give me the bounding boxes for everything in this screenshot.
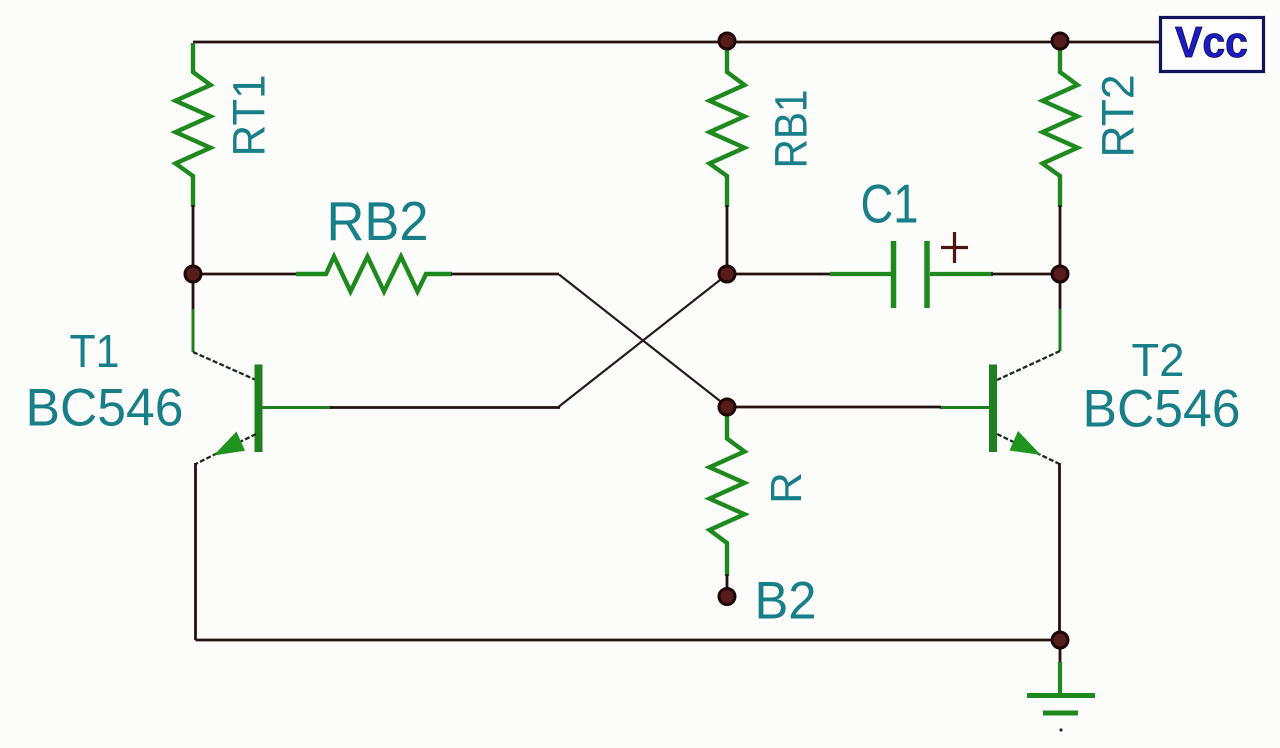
wire R to node B2 — [726, 574, 729, 594]
node B junction dot — [719, 266, 735, 282]
port Vcc box — [1161, 18, 1264, 72]
emitter diagonal T2 — [997, 434, 1060, 464]
svg-text:RT1: RT1 — [224, 75, 275, 157]
emitter arrow T2 — [1010, 431, 1042, 455]
svg-text:RT2: RT2 — [1093, 75, 1144, 158]
svg-text:BC546: BC546 — [26, 379, 184, 438]
wire node A to collector T1 — [192, 274, 195, 310]
wire node D to T2 base — [727, 406, 941, 409]
transistor T1 — [193, 274, 332, 464]
svg-text:T2: T2 — [1132, 334, 1185, 386]
ground third stub — [1059, 728, 1062, 731]
node A junction dot — [185, 266, 201, 282]
emitter arrow T1 — [214, 432, 246, 456]
wire top rail Vcc — [193, 41, 1161, 44]
wire RT2 to node C — [1059, 205, 1062, 274]
wire node C to collector T2 — [1059, 274, 1062, 310]
wire node B to C1 — [727, 273, 831, 276]
base lead T2 — [940, 406, 989, 409]
resistor RB1 — [710, 44, 745, 207]
node B2 junction dot — [719, 589, 735, 605]
collector lead T1 — [192, 309, 195, 352]
node top RB1 junction dot — [719, 33, 735, 49]
wire RT1 to node A — [192, 205, 195, 274]
resistor RT2 — [1043, 44, 1078, 207]
svg-text:Vcc: Vcc — [1175, 18, 1248, 67]
wire diagonal cross B — [559, 275, 727, 407]
svg-text:T1: T1 — [70, 325, 120, 377]
svg-text:RB1: RB1 — [766, 90, 817, 169]
wire RB1 to node B — [726, 205, 729, 274]
wire node E to ground — [1059, 648, 1062, 664]
capacitor C1 — [830, 241, 993, 308]
node D junction dot — [719, 399, 735, 415]
emitter diagonal T1 — [196, 434, 257, 464]
wire diagonal cross A — [559, 275, 727, 407]
wire bottom rail — [196, 639, 1061, 642]
svg-text:C1: C1 — [861, 173, 919, 235]
node E junction dot — [1052, 632, 1068, 648]
base bar T2 — [989, 365, 997, 453]
wire T2 emitter down — [1058, 463, 1061, 640]
wire RB2 to diagonal — [451, 273, 559, 276]
wire node A to RB2 — [193, 273, 297, 276]
node C junction dot — [1052, 266, 1068, 282]
transistor T2 — [940, 274, 1060, 464]
resistor R — [710, 410, 745, 576]
svg-text:BC546: BC546 — [1083, 380, 1241, 439]
resistor RT1 — [176, 43, 211, 207]
base bar T1 — [255, 365, 263, 453]
wire T1 emitter down — [194, 463, 197, 640]
svg-text:R: R — [762, 472, 811, 504]
collector lead T2 — [1059, 309, 1062, 351]
resistor RB2 — [296, 257, 452, 292]
base lead T1 — [262, 406, 332, 409]
node top RT2 junction dot — [1052, 33, 1068, 49]
ground — [1027, 662, 1095, 713]
collector diagonal T1 — [193, 352, 256, 380]
svg-text:RB2: RB2 — [327, 190, 429, 252]
svg-text:B2: B2 — [755, 572, 817, 631]
polarity plus C1 — [941, 232, 968, 263]
wire C1 to node C — [991, 273, 1060, 276]
collector diagonal T2 — [997, 351, 1060, 380]
wire T1 base to cross — [330, 407, 560, 408]
